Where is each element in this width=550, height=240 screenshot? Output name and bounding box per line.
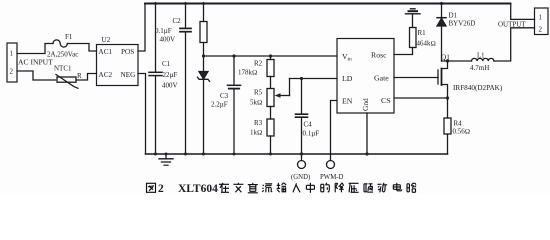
svg-text:U2: U2 [102, 36, 111, 44]
inductor L1 [470, 52, 494, 72]
svg-text:PWM-D: PWM-D [320, 174, 344, 181]
svg-text:464kΩ: 464kΩ [417, 40, 436, 48]
svg-text:2A,250Vac: 2A,250Vac [47, 51, 78, 59]
wire NEG drop to bottom rail [138, 74, 146, 155]
svg-text:F1: F1 [65, 33, 73, 41]
svg-text:Gate: Gate [374, 74, 389, 83]
svg-text:Vin: Vin [342, 52, 352, 63]
svg-text:0.1µF: 0.1µF [155, 27, 172, 35]
svg-text:AC2: AC2 [99, 71, 113, 79]
wire POS riser to top rail [138, 4, 145, 52]
svg-text:NEG: NEG [121, 71, 136, 79]
svg-text:AC1: AC1 [99, 48, 113, 56]
resistor R3 [250, 119, 274, 154]
caption latin part [158, 183, 218, 195]
svg-text:LD: LD [342, 74, 353, 83]
svg-text:C1: C1 [162, 60, 171, 68]
svg-text:XLT604: XLT604 [178, 183, 218, 194]
svg-text:22µF: 22µF [163, 71, 178, 79]
svg-text:2.2µF: 2.2µF [211, 101, 228, 109]
diode D1 BYV26D [437, 2, 475, 61]
svg-text:R: R [77, 72, 82, 80]
svg-text:Q1: Q1 [441, 54, 450, 62]
svg-text:400V: 400V [160, 36, 176, 44]
svg-text:C3: C3 [220, 92, 229, 100]
bridge rectifier U2 [97, 36, 139, 86]
svg-text:D1: D1 [449, 12, 458, 20]
wire Rosc to R1 [394, 48, 413, 55]
transistor Q1 IRF840 [394, 61, 503, 98]
wire pin2 to NTC [17, 71, 56, 80]
rail junction dots [154, 2, 272, 156]
capacitor C1 [149, 4, 178, 155]
wire IC Gnd drop [366, 113, 368, 154]
svg-text:178kΩ: 178kΩ [238, 69, 257, 77]
svg-text:0.1µF: 0.1µF [303, 130, 320, 138]
svg-text:OUTPUT: OUTPUT [498, 20, 526, 28]
capacitor C2 [155, 4, 191, 155]
svg-text:(GND): (GND) [291, 174, 310, 181]
svg-text:IRF840(D2PAK): IRF840(D2PAK) [453, 84, 503, 92]
wire L1 to OUTPUT pin2 [494, 28, 535, 61]
wire Vin line [204, 55, 338, 57]
wire R2-R5 [270, 77, 272, 89]
ground [159, 154, 173, 165]
terminal GND [291, 161, 310, 182]
svg-text:1: 1 [10, 50, 14, 58]
svg-text:CS: CS [381, 96, 391, 105]
svg-text:C2: C2 [173, 17, 182, 25]
svg-text:2: 2 [10, 68, 14, 76]
node zener top [202, 54, 205, 57]
connector J1 AC INPUT [7, 43, 53, 82]
svg-text:L1: L1 [477, 52, 485, 59]
potentiometer R5 [250, 79, 290, 107]
wire NTC to U2 AC2 [76, 74, 97, 81]
resistor R4 [444, 98, 470, 154]
svg-text:5kΩ: 5kΩ [250, 99, 262, 107]
connector OUTPUT [498, 8, 548, 35]
dropper resistor (unlabeled) [200, 4, 207, 57]
flipped ground above R1 [406, 9, 421, 28]
IC U1 XLT604 [337, 39, 394, 114]
wire LD line [290, 78, 338, 80]
svg-text:1: 1 [539, 13, 543, 21]
svg-text:400V: 400V [162, 82, 178, 90]
svg-text:Rosc: Rosc [371, 51, 387, 60]
resistor R2 [238, 54, 274, 76]
resistor R1 [410, 28, 436, 48]
svg-text:2: 2 [158, 183, 164, 194]
svg-text:POS: POS [121, 48, 134, 56]
svg-text:AC INPUT: AC INPUT [18, 58, 53, 67]
thermistor NTC1 [54, 65, 82, 89]
caption hanzi strokes [146, 183, 416, 193]
svg-text:R4: R4 [454, 120, 463, 128]
svg-text:R3: R3 [254, 119, 263, 127]
svg-text:Gnd: Gnd [361, 98, 370, 111]
svg-text:0.56Ω: 0.56Ω [453, 128, 471, 136]
svg-text:R5: R5 [254, 89, 263, 97]
wire fuse to U2 AC1 [67, 44, 96, 52]
terminal PWM-D [320, 161, 344, 182]
wire R5-R3 [270, 107, 272, 120]
wire CS line [394, 97, 448, 99]
capacitor C4 [296, 77, 320, 161]
svg-text:2: 2 [539, 25, 543, 33]
svg-text:C4: C4 [304, 121, 313, 129]
zener diode [198, 56, 210, 154]
svg-text:R2: R2 [254, 60, 263, 68]
svg-text:1kΩ: 1kΩ [250, 129, 262, 137]
fuse F1 [47, 33, 78, 59]
wire top rail to OUTPUT pin1 [511, 4, 535, 20]
capacitor C3 [211, 54, 241, 154]
svg-text:4.7mH: 4.7mH [470, 64, 489, 72]
svg-text:EN: EN [342, 97, 353, 106]
wire EN to PWM-D [331, 101, 338, 161]
svg-text:R1: R1 [418, 29, 427, 37]
svg-text:BYV26D: BYV26D [449, 20, 476, 28]
top rail [145, 3, 511, 5]
wire pin1 to fuse [17, 44, 53, 54]
svg-text:NTC1: NTC1 [54, 65, 72, 73]
wire switch node [442, 60, 472, 62]
bottom rail [146, 153, 448, 155]
